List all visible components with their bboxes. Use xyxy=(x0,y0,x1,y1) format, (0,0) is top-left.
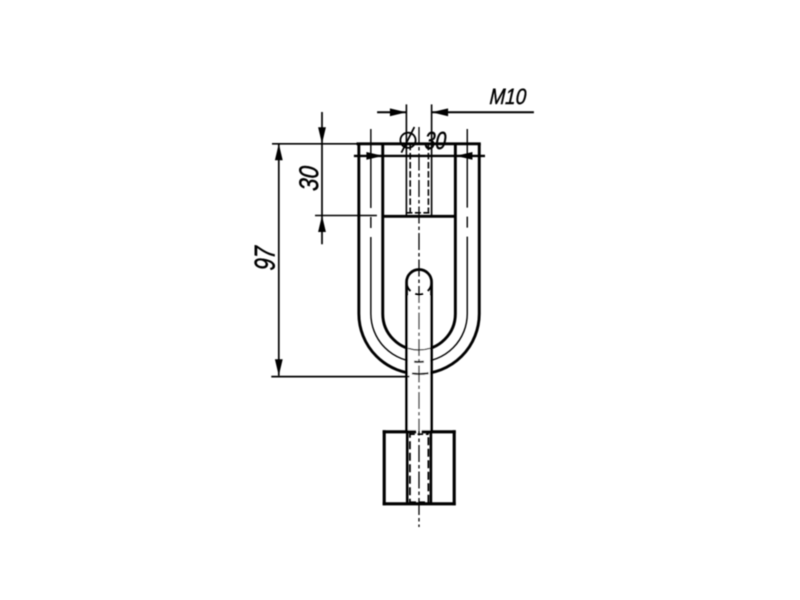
M10 hole left bore line / extension xyxy=(405,104,407,216)
svg-text:30: 30 xyxy=(424,127,448,155)
fork outer contour (left edge, U bend, right edge) xyxy=(359,144,479,374)
head bottom line xyxy=(383,215,456,218)
block left edge xyxy=(383,430,386,505)
dimension M10 right arrow xyxy=(432,108,449,116)
label M10 xyxy=(489,85,528,110)
block top edge left part xyxy=(383,430,416,433)
dimension 30 top arrow xyxy=(318,127,326,144)
rod hidden edge in block right xyxy=(430,432,433,504)
rod left edge xyxy=(405,282,408,432)
fork strip centerline (dash-dot following the bend) xyxy=(371,129,467,362)
dimension 30 bottom extension line xyxy=(315,215,377,217)
head top edge extension (thin) xyxy=(272,143,357,145)
dimension dia30 left arrow xyxy=(366,152,383,160)
dimension 97 line xyxy=(278,144,280,376)
label 30 vertical xyxy=(295,165,324,192)
block top edge right part xyxy=(422,430,456,433)
M10 hole right bore line / extension xyxy=(431,104,433,216)
fork inner slot contour xyxy=(383,144,456,350)
main vertical centerline xyxy=(418,127,420,527)
label 97 vertical xyxy=(250,245,282,271)
thread hidden line in block left xyxy=(409,432,411,503)
svg-text:M10: M10 xyxy=(489,85,528,110)
dimension dia30 line xyxy=(354,155,485,157)
dimension M10 left arrow xyxy=(390,108,407,116)
rod cap top semicircle xyxy=(407,270,432,283)
thread hidden line in block right xyxy=(427,432,429,503)
hidden line above block bottom xyxy=(410,501,429,503)
dimension M10 line right part xyxy=(432,111,534,113)
head top edge xyxy=(357,142,481,145)
inner U arc thin line behind rod xyxy=(408,348,430,350)
diameter symbol of dia30 xyxy=(400,127,415,153)
svg-text:30: 30 xyxy=(295,165,324,192)
svg-text:97: 97 xyxy=(250,245,282,271)
dimension 97 top arrow xyxy=(275,144,283,161)
M10 thread hidden line left xyxy=(409,144,411,213)
dimension 97 bottom arrow xyxy=(275,359,283,376)
rod hidden edge in block left xyxy=(406,432,409,504)
dimension dia30 right arrow xyxy=(456,152,473,160)
block right edge xyxy=(453,430,456,505)
rod cap hidden bottom arc xyxy=(407,282,432,295)
block bottom edge xyxy=(383,502,456,505)
hidden line below block top xyxy=(409,433,428,435)
rod right edge xyxy=(430,282,433,432)
M10 thread hidden line right xyxy=(427,144,429,213)
dimension 30 line xyxy=(321,112,323,244)
white-out of rod interior xyxy=(408,296,430,431)
dimension M10 line left part xyxy=(377,111,406,113)
middle U arc hidden dash behind rod xyxy=(414,361,424,363)
outer U arc hidden dash behind rod xyxy=(412,372,429,375)
dimension 30 bottom arrow xyxy=(318,216,326,233)
dimension 97 bottom extension line xyxy=(271,376,409,378)
M10 hole bottom hidden line xyxy=(406,212,431,214)
label 30 of dia30 xyxy=(424,127,448,155)
